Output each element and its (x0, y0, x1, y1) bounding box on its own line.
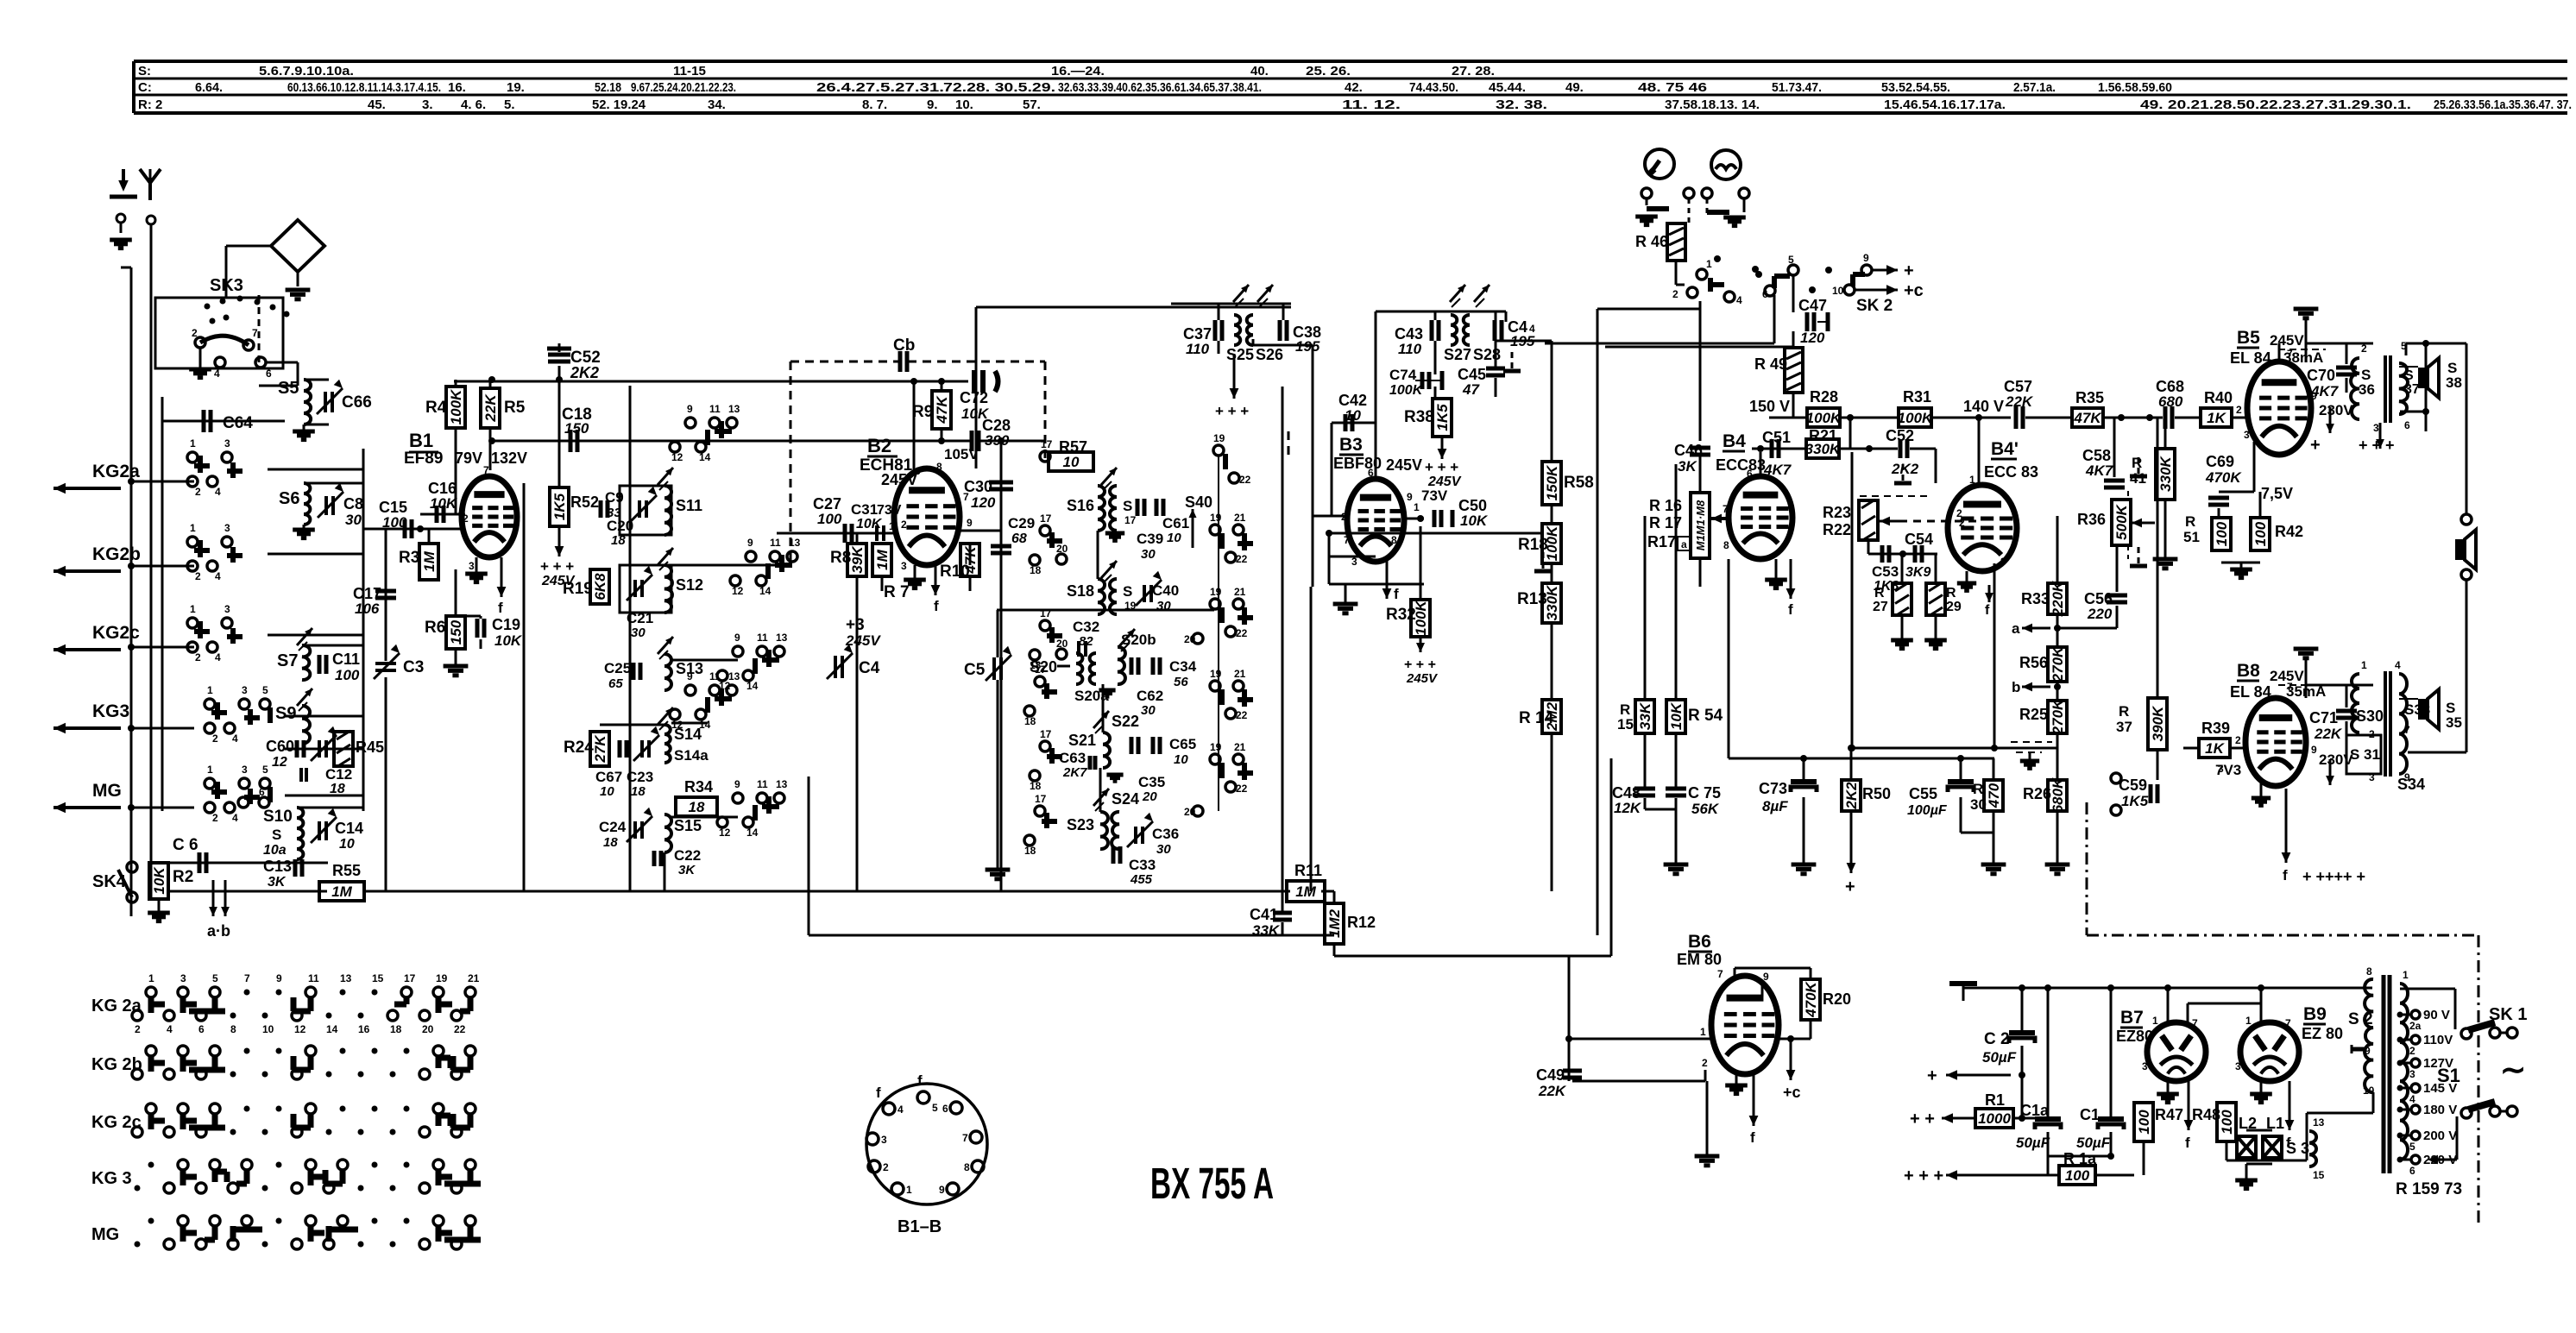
svg-text:9: 9 (747, 537, 753, 549)
svg-text:B1–B: B1–B (898, 1217, 942, 1236)
svg-text:C60: C60 (266, 738, 294, 755)
svg-text:C3: C3 (403, 658, 424, 676)
svg-text:8: 8 (1391, 534, 1397, 546)
svg-text:S14a: S14a (674, 747, 709, 764)
svg-text:2K2: 2K2 (570, 364, 599, 381)
svg-text:1M2: 1M2 (1326, 909, 1343, 938)
svg-text:R56: R56 (2019, 654, 2048, 671)
svg-text:65: 65 (608, 676, 623, 691)
svg-text:C54: C54 (1905, 531, 1933, 548)
svg-text:100: 100 (335, 667, 360, 683)
svg-text:3: 3 (224, 437, 230, 450)
svg-text:17: 17 (1040, 607, 1052, 619)
svg-text:2: 2 (212, 733, 218, 745)
svg-text:ECC83: ECC83 (1716, 456, 1766, 474)
svg-text:a: a (2012, 620, 2020, 637)
svg-text:R32: R32 (1386, 606, 1416, 624)
svg-text:4: 4 (167, 1023, 173, 1035)
svg-text:9: 9 (2311, 390, 2317, 402)
svg-text:C13: C13 (263, 858, 292, 875)
svg-text:C 2: C 2 (1984, 1030, 2010, 1048)
svg-text:B3: B3 (1339, 435, 1363, 455)
svg-text:15: 15 (1617, 716, 1634, 733)
svg-text:10a: 10a (263, 843, 287, 858)
svg-text:1: 1 (1414, 501, 1420, 513)
svg-text:11. 12.: 11. 12. (1342, 97, 1401, 112)
svg-text:8: 8 (2366, 965, 2372, 978)
svg-text:19: 19 (436, 972, 448, 984)
svg-text:6: 6 (198, 1023, 205, 1035)
svg-text:19: 19 (1210, 586, 1222, 598)
svg-text:2: 2 (2409, 1045, 2415, 1057)
svg-text:79V: 79V (455, 450, 482, 467)
svg-text:8µF: 8µF (1762, 798, 1788, 814)
svg-text:C32: C32 (1073, 619, 1099, 635)
svg-text:4: 4 (215, 486, 221, 498)
svg-text:6: 6 (1747, 468, 1753, 480)
svg-text:21: 21 (468, 972, 480, 984)
svg-text:R23: R23 (1823, 504, 1851, 521)
svg-text:100µF: 100µF (1907, 803, 1948, 818)
svg-text:10: 10 (1174, 752, 1188, 767)
svg-text:a·b: a·b (207, 922, 230, 940)
svg-text:1M: 1M (874, 549, 891, 569)
svg-text:13: 13 (776, 632, 788, 644)
svg-text:S22: S22 (1112, 713, 1139, 730)
svg-text:R11: R11 (1294, 862, 1322, 879)
svg-text:7,5V: 7,5V (2261, 485, 2293, 502)
svg-text:C16: C16 (428, 480, 457, 497)
svg-text:680: 680 (2158, 393, 2183, 410)
svg-text:5.6.7.9.10.10a.: 5.6.7.9.10.10a. (259, 64, 354, 79)
svg-text:12: 12 (732, 585, 744, 597)
svg-text:145 V: 145 V (2423, 1081, 2457, 1096)
svg-text:12: 12 (272, 755, 287, 770)
svg-text:2: 2 (883, 1161, 889, 1173)
svg-text:9: 9 (734, 632, 740, 644)
svg-text:ECC 83: ECC 83 (1984, 463, 2038, 481)
svg-text:C55: C55 (1909, 785, 1937, 802)
svg-text:C59: C59 (2119, 777, 2147, 794)
svg-text:18: 18 (1024, 845, 1036, 857)
svg-text:C47: C47 (1798, 297, 1827, 314)
svg-text:2: 2 (1672, 288, 1678, 300)
svg-text:100: 100 (382, 514, 407, 531)
svg-text:37.58.18.13. 14.: 37.58.18.13. 14. (1665, 97, 1760, 112)
svg-text:C24: C24 (599, 819, 627, 835)
svg-text:C56: C56 (2084, 590, 2113, 607)
svg-text:1: 1 (889, 520, 895, 532)
svg-text:27. 28.: 27. 28. (1452, 64, 1495, 79)
svg-text:R20: R20 (1823, 990, 1851, 1008)
svg-text:150: 150 (564, 420, 589, 437)
svg-text:R28: R28 (1810, 388, 1838, 406)
svg-text:1: 1 (906, 1184, 912, 1196)
svg-text:21: 21 (1234, 741, 1246, 753)
svg-text:20: 20 (1056, 638, 1068, 650)
svg-text:R 49: R 49 (1754, 355, 1787, 373)
svg-text:110: 110 (1398, 341, 1422, 357)
svg-text:5: 5 (262, 684, 268, 696)
svg-text:56K: 56K (1691, 801, 1720, 817)
svg-text:39K: 39K (849, 545, 866, 574)
svg-text:S23: S23 (1067, 816, 1094, 833)
svg-text:9: 9 (276, 972, 282, 984)
svg-text:SK 2: SK 2 (1856, 297, 1893, 315)
svg-text:245V: 245V (845, 632, 881, 649)
svg-text:42.: 42. (1345, 80, 1363, 95)
svg-text:18: 18 (390, 1023, 402, 1035)
svg-text:1000: 1000 (1978, 1110, 2011, 1127)
svg-text:100K: 100K (1898, 410, 1934, 426)
svg-text:6: 6 (2404, 419, 2410, 431)
svg-text:6K8: 6K8 (592, 573, 608, 600)
svg-text:16: 16 (358, 1023, 370, 1035)
svg-text:245V: 245V (1406, 671, 1439, 686)
svg-text:R 7: R 7 (884, 583, 910, 601)
svg-text:1K5: 1K5 (1434, 404, 1451, 431)
svg-text:13: 13 (728, 403, 740, 415)
svg-text:20: 20 (1184, 806, 1196, 818)
svg-text:R 17: R 17 (1649, 514, 1682, 531)
svg-text:10.: 10. (955, 97, 973, 112)
svg-text:MG: MG (91, 1225, 119, 1244)
svg-text:C37: C37 (1183, 325, 1212, 343)
svg-text:10K: 10K (494, 632, 523, 649)
svg-text:2K2: 2K2 (1843, 782, 1860, 810)
svg-text:S:: S: (138, 64, 151, 79)
svg-text:7: 7 (962, 1132, 968, 1144)
svg-text:B6: B6 (1688, 932, 1711, 952)
svg-text:6: 6 (942, 1103, 948, 1115)
svg-text:47K: 47K (2073, 410, 2102, 426)
svg-text:9.67.25.24.20.21.22.23.: 9.67.25.24.20.21.22.23. (631, 80, 736, 95)
svg-text:S12: S12 (676, 576, 703, 594)
svg-text:R 46: R 46 (1635, 233, 1668, 250)
svg-text:R3: R3 (399, 549, 419, 567)
svg-text:22: 22 (454, 1023, 466, 1035)
svg-text:2: 2 (192, 327, 198, 339)
svg-text:C11: C11 (332, 651, 360, 668)
svg-text:1: 1 (2152, 1015, 2158, 1027)
svg-text:200 V: 200 V (2423, 1129, 2457, 1143)
svg-text:20: 20 (1184, 633, 1196, 645)
svg-text:S9: S9 (275, 704, 296, 723)
svg-text:2: 2 (2361, 343, 2367, 355)
svg-text:1K5: 1K5 (2121, 793, 2149, 809)
svg-text:R: R (1874, 586, 1885, 600)
svg-text:C4: C4 (859, 659, 880, 677)
svg-text:73V: 73V (877, 503, 902, 518)
svg-text:B4': B4' (1991, 439, 2019, 459)
svg-text:C69: C69 (2206, 453, 2234, 470)
svg-text:S18: S18 (1067, 582, 1094, 600)
svg-text:52. 19.24: 52. 19.24 (592, 97, 646, 112)
svg-text:245V: 245V (1386, 456, 1422, 474)
svg-text:470K: 470K (2205, 469, 2242, 486)
svg-text:R36: R36 (2077, 511, 2106, 528)
svg-text:R2: R2 (173, 868, 193, 886)
svg-text:7: 7 (1723, 503, 1729, 515)
svg-text:C45: C45 (1458, 366, 1486, 383)
svg-text:30: 30 (631, 626, 646, 640)
svg-text:4K7: 4K7 (2085, 462, 2114, 479)
svg-text:B8: B8 (2237, 661, 2260, 681)
svg-text:S 31: S 31 (2350, 746, 2380, 763)
svg-text:17: 17 (1035, 663, 1047, 676)
svg-text:45.44.: 45.44. (1489, 80, 1526, 95)
svg-text:105V: 105V (944, 446, 979, 462)
svg-text:+ + +: + + + (1425, 459, 1458, 475)
svg-text:R25: R25 (2019, 706, 2048, 723)
svg-text:33K: 33K (1637, 701, 1653, 730)
svg-text:C19: C19 (492, 616, 520, 633)
svg-text:C71: C71 (2309, 709, 2338, 726)
svg-text:270K: 270K (2050, 698, 2066, 735)
svg-text:49. 20.21.28.50.22.23.27.31.29: 49. 20.21.28.50.22.23.27.31.29.30.1. (2140, 97, 2411, 112)
svg-text:132V: 132V (491, 450, 527, 467)
svg-text:2: 2 (135, 1023, 141, 1035)
svg-text:5: 5 (2409, 1141, 2415, 1153)
svg-text:2a: 2a (2409, 1020, 2422, 1032)
svg-text:C22: C22 (674, 847, 701, 864)
svg-text:22: 22 (1236, 709, 1248, 721)
svg-text:C1a: C1a (2020, 1102, 2050, 1119)
svg-text:6.64.: 6.64. (195, 80, 223, 95)
svg-text:C73: C73 (1759, 780, 1787, 797)
svg-text:C31: C31 (851, 501, 878, 518)
svg-text:9: 9 (939, 1184, 945, 1196)
svg-text:S5: S5 (278, 379, 299, 398)
svg-text:27: 27 (1873, 600, 1888, 614)
svg-text:8: 8 (964, 1161, 970, 1173)
svg-text:21: 21 (1234, 586, 1246, 598)
svg-text:22: 22 (1236, 627, 1248, 639)
svg-text:1K: 1K (2205, 740, 2225, 757)
svg-text:+ + +: + + + (1215, 403, 1249, 419)
svg-text:C49: C49 (1536, 1066, 1565, 1084)
svg-text:20: 20 (1142, 789, 1157, 804)
svg-text:100: 100 (2065, 1167, 2090, 1184)
svg-text:3: 3 (242, 684, 248, 696)
svg-text:R 54: R 54 (1688, 707, 1723, 725)
svg-text:14: 14 (746, 827, 759, 839)
svg-text:S: S (1123, 583, 1132, 600)
svg-text:30: 30 (1141, 547, 1156, 562)
svg-text:7: 7 (483, 464, 489, 476)
svg-text:C28: C28 (982, 417, 1011, 434)
svg-text:33K: 33K (1252, 922, 1281, 939)
svg-text:C33: C33 (1129, 857, 1156, 873)
svg-text:20: 20 (1056, 543, 1068, 555)
svg-text:2: 2 (212, 812, 218, 824)
svg-text:15: 15 (2313, 1169, 2325, 1181)
svg-text:1: 1 (190, 603, 196, 615)
svg-text:R21: R21 (1809, 427, 1837, 444)
svg-text:R: R (1973, 781, 1983, 797)
svg-text:51: 51 (2183, 529, 2200, 545)
svg-text:R: R (2119, 703, 2129, 720)
svg-text:C15: C15 (379, 499, 407, 516)
svg-text:R19: R19 (563, 580, 593, 598)
svg-text:1K5: 1K5 (551, 493, 568, 520)
svg-text:f: f (1985, 603, 1990, 618)
svg-text:EM 80: EM 80 (1677, 951, 1722, 968)
svg-text:106: 106 (355, 600, 380, 617)
svg-text:B9: B9 (2303, 1004, 2327, 1024)
svg-text:25.26.33.56.1a.35.36.47. 37.: 25.26.33.56.1a.35.36.47. 37. (2434, 97, 2572, 112)
svg-text:11: 11 (308, 972, 319, 984)
svg-text:17: 17 (1040, 512, 1052, 525)
svg-text:R: 2: R: 2 (138, 97, 162, 112)
svg-text:3: 3 (881, 1134, 887, 1146)
svg-text:1: 1 (148, 972, 154, 984)
svg-text:19.: 19. (507, 80, 525, 95)
svg-text:+ + +: + + + (1404, 657, 1436, 672)
svg-text:C72: C72 (960, 389, 988, 406)
svg-text:12K: 12K (1614, 800, 1642, 816)
svg-text:18: 18 (1030, 780, 1042, 792)
svg-text:72.28. 30.5.29.: 72.28. 30.5.29. (943, 80, 1055, 95)
svg-text:330K: 330K (2157, 455, 2174, 491)
svg-text:R40: R40 (2204, 389, 2233, 406)
svg-text:C66: C66 (342, 393, 372, 412)
svg-text:50µF: 50µF (2076, 1135, 2111, 1151)
svg-text:BX 755 A: BX 755 A (1150, 1159, 1274, 1208)
svg-text:EBF80: EBF80 (1333, 455, 1382, 472)
svg-text:R: R (1946, 586, 1956, 600)
svg-text:50µF: 50µF (1982, 1049, 2017, 1066)
svg-text:R33: R33 (2021, 590, 2050, 607)
svg-text:100: 100 (817, 511, 842, 527)
svg-text:C29: C29 (1008, 515, 1035, 531)
svg-text:4: 4 (1736, 294, 1742, 306)
svg-text:9: 9 (2365, 1045, 2371, 1057)
svg-text:9: 9 (967, 517, 973, 529)
svg-text:C53: C53 (1872, 563, 1899, 580)
svg-text:21: 21 (1234, 512, 1246, 524)
svg-text:C1: C1 (2080, 1106, 2100, 1123)
svg-text:C68: C68 (2156, 378, 2184, 395)
svg-text:1: 1 (2403, 969, 2409, 981)
svg-text:R6: R6 (425, 619, 445, 637)
svg-text:500K: 500K (2113, 503, 2130, 539)
svg-text:68: 68 (1011, 531, 1027, 546)
svg-text:KG 3: KG 3 (91, 1169, 132, 1188)
svg-text:470: 470 (1986, 783, 2002, 808)
svg-text:C46: C46 (1674, 442, 1703, 459)
svg-text:4. 6.: 4. 6. (461, 97, 486, 112)
svg-text:6: 6 (1762, 288, 1768, 300)
svg-text:+c: +c (1783, 1084, 1801, 1101)
svg-text:1: 1 (190, 437, 196, 450)
svg-text:2: 2 (1702, 1057, 1708, 1069)
svg-text:C14: C14 (335, 820, 363, 837)
svg-text:17: 17 (1041, 438, 1053, 450)
svg-text:C 6: C 6 (173, 836, 198, 854)
svg-text:7: 7 (244, 972, 250, 984)
svg-text:9: 9 (1407, 491, 1413, 503)
svg-text:18: 18 (1030, 564, 1042, 576)
svg-text:f: f (876, 1085, 881, 1101)
svg-text:1M: 1M (421, 550, 438, 571)
svg-text:R42: R42 (2275, 523, 2303, 540)
svg-text:30: 30 (1141, 703, 1156, 718)
svg-text:230V: 230V (2319, 751, 2353, 768)
svg-text:C27: C27 (813, 495, 841, 512)
svg-text:12: 12 (671, 451, 683, 463)
svg-text:C43: C43 (1395, 325, 1423, 343)
svg-text:13: 13 (340, 972, 352, 984)
svg-text:22K: 22K (482, 393, 499, 423)
svg-text:+ + +: + + + (1904, 1166, 1943, 1185)
svg-text:2: 2 (1959, 517, 1965, 529)
svg-text:17: 17 (1040, 728, 1052, 740)
svg-text:S10: S10 (263, 808, 293, 826)
svg-text:25. 26.: 25. 26. (1306, 64, 1351, 79)
svg-text:1: 1 (1706, 258, 1712, 270)
svg-text:52.18: 52.18 (595, 80, 621, 95)
svg-text:C39: C39 (1137, 531, 1163, 547)
svg-text:R48: R48 (2192, 1106, 2220, 1123)
svg-text:+c: +c (1904, 281, 1924, 300)
svg-text:S: S (272, 827, 281, 843)
svg-text:7: 7 (2192, 1017, 2198, 1029)
svg-text:140 V: 140 V (1963, 398, 2004, 415)
svg-text:110V: 110V (2423, 1033, 2453, 1047)
svg-text:S7: S7 (277, 651, 298, 670)
svg-text:26.4.27.5.27.31.: 26.4.27.5.27.31. (816, 80, 944, 95)
svg-text:11: 11 (709, 403, 721, 415)
svg-text:S 3: S 3 (2286, 1140, 2309, 1157)
svg-text:37: 37 (2404, 382, 2420, 397)
svg-text:B1: B1 (409, 430, 433, 451)
svg-text:S11: S11 (676, 497, 702, 514)
svg-text:2: 2 (2369, 728, 2375, 740)
svg-text:41: 41 (2130, 470, 2146, 487)
svg-text:R50: R50 (1862, 785, 1891, 802)
svg-text:B5: B5 (2237, 328, 2260, 348)
svg-text:C34: C34 (1169, 658, 1197, 675)
svg-text:R58: R58 (1564, 474, 1594, 492)
svg-text:∼: ∼ (2500, 1052, 2526, 1087)
svg-text:18: 18 (330, 782, 345, 796)
svg-text:2.57.1a.: 2.57.1a. (2013, 80, 2056, 95)
svg-text:3: 3 (2373, 422, 2379, 434)
svg-text:2: 2 (2236, 404, 2242, 416)
svg-text:EZ 80: EZ 80 (2302, 1025, 2343, 1042)
svg-text:R31: R31 (1903, 388, 1931, 406)
svg-text:15.46.54.16.17.17a.: 15.46.54.16.17.17a. (1884, 97, 2006, 112)
svg-text:10: 10 (1167, 531, 1181, 545)
svg-text:R: R (2185, 513, 2195, 530)
svg-text:18: 18 (603, 835, 618, 850)
svg-text:11: 11 (709, 670, 721, 682)
svg-text:13: 13 (776, 778, 788, 790)
svg-text:3: 3 (224, 522, 230, 534)
svg-text:9: 9 (687, 403, 693, 415)
svg-text:245V: 245V (2270, 332, 2304, 349)
svg-text:R 159 73: R 159 73 (2396, 1180, 2462, 1198)
svg-text:C42: C42 (1338, 392, 1367, 409)
svg-text:18: 18 (611, 533, 626, 548)
svg-text:470K: 470K (1803, 980, 1819, 1017)
svg-text:2K2: 2K2 (1891, 461, 1919, 477)
svg-text:12: 12 (719, 827, 731, 839)
svg-text:2: 2 (195, 570, 201, 582)
svg-text:48. 75 46: 48. 75 46 (1638, 80, 1707, 95)
svg-text:R38: R38 (1404, 408, 1434, 426)
